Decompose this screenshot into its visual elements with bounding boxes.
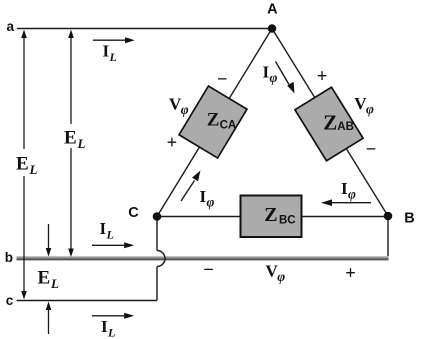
svg-text:E: E bbox=[64, 128, 77, 149]
svg-text:φ: φ bbox=[270, 70, 278, 85]
svg-text:L: L bbox=[77, 136, 86, 151]
svg-text:BC: BC bbox=[279, 215, 296, 227]
svg-text:I: I bbox=[100, 219, 107, 238]
svg-text:φ: φ bbox=[181, 102, 189, 117]
svg-text:I: I bbox=[200, 187, 207, 206]
svg-text:c: c bbox=[6, 293, 14, 308]
svg-text:L: L bbox=[107, 326, 115, 339]
svg-text:C: C bbox=[128, 205, 139, 221]
svg-text:I: I bbox=[101, 317, 108, 336]
svg-text:φ: φ bbox=[277, 269, 285, 284]
svg-text:+: + bbox=[345, 264, 356, 284]
svg-text:L: L bbox=[29, 162, 38, 177]
svg-text:−: − bbox=[217, 70, 228, 90]
svg-text:a: a bbox=[7, 19, 15, 34]
svg-text:E: E bbox=[16, 154, 29, 175]
svg-text:L: L bbox=[109, 50, 117, 64]
svg-text:I: I bbox=[263, 62, 270, 81]
svg-text:Z: Z bbox=[207, 109, 220, 130]
svg-text:I: I bbox=[103, 41, 110, 60]
svg-text:L: L bbox=[106, 228, 114, 242]
svg-text:φ: φ bbox=[207, 195, 215, 210]
svg-text:b: b bbox=[5, 250, 13, 265]
svg-text:+: + bbox=[167, 133, 178, 153]
svg-text:A: A bbox=[267, 2, 278, 18]
svg-text:Z: Z bbox=[323, 111, 337, 135]
svg-text:φ: φ bbox=[366, 102, 374, 117]
svg-text:E: E bbox=[38, 268, 51, 289]
svg-text:Z: Z bbox=[264, 204, 277, 226]
svg-text:CA: CA bbox=[220, 120, 237, 132]
svg-text:−: − bbox=[366, 140, 377, 160]
svg-text:+: + bbox=[317, 67, 328, 87]
svg-text:−: − bbox=[203, 261, 214, 281]
svg-text:AB: AB bbox=[337, 121, 354, 133]
svg-text:φ: φ bbox=[348, 187, 356, 202]
svg-text:B: B bbox=[404, 211, 414, 227]
svg-text:I: I bbox=[341, 179, 348, 198]
svg-text:L: L bbox=[50, 276, 59, 291]
